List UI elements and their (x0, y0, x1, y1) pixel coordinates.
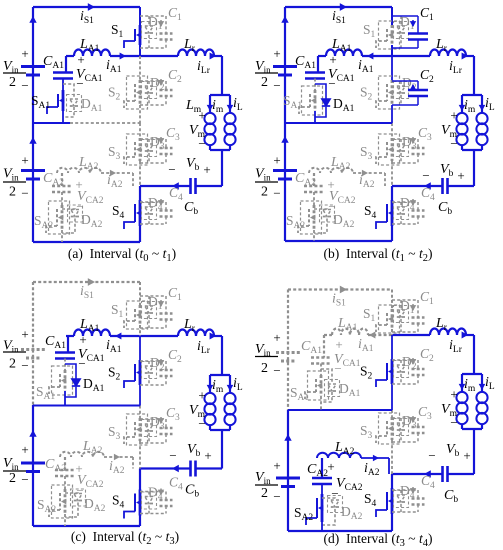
left rail upper wire (284, 7, 286, 123)
svg-text:DA1: DA1 (83, 376, 105, 394)
svg-text:−: − (273, 489, 280, 504)
switch SA2 (64, 476, 66, 489)
inductor Lm branch (209, 95, 211, 112)
svg-text:S2: S2 (108, 365, 121, 383)
diode D (400, 81, 402, 86)
inductor Lr (178, 329, 214, 336)
capacitor CA1 (317, 56, 319, 73)
node tank bottom (210, 429, 230, 431)
svg-text:+: + (273, 46, 280, 61)
svg-text:C4: C4 (169, 475, 183, 493)
svg-text:Vb: Vb (440, 162, 454, 179)
svg-text:+: + (21, 153, 28, 168)
svg-text:+: + (21, 46, 28, 61)
diode D (148, 361, 150, 366)
svg-text:2: 2 (9, 471, 16, 486)
capacitor C (140, 80, 166, 82)
wire iA2 segment (101, 172, 133, 174)
source Vin/2 bottom (276, 477, 300, 480)
svg-text:iLr: iLr (197, 59, 211, 76)
load branch iL (481, 95, 483, 112)
capacitor CA1 (67, 336, 69, 353)
diode D (148, 492, 150, 497)
svg-text:iLr: iLr (449, 338, 463, 355)
svg-text:−: − (78, 356, 85, 371)
switch S (391, 25, 394, 45)
switch cell S3 (391, 410, 393, 417)
capacitor C (392, 489, 418, 491)
svg-text:S3: S3 (360, 144, 373, 162)
svg-text:+: + (79, 332, 86, 347)
svg-text:+: + (450, 108, 457, 123)
svg-text:im: im (212, 378, 224, 395)
svg-text:Vin: Vin (255, 470, 271, 486)
bottom rail wire (285, 240, 392, 242)
diode D (148, 16, 150, 26)
top rail wire (33, 6, 140, 8)
bottom rail wire (33, 241, 140, 243)
switch cell S1 (391, 290, 393, 310)
source Vin/2 top (273, 65, 297, 68)
svg-text:−: − (198, 416, 205, 431)
svg-text:S3: S3 (108, 144, 121, 162)
svg-text:C1: C1 (420, 5, 434, 23)
svg-text:C4: C4 (421, 185, 435, 203)
svg-text:S4: S4 (364, 491, 377, 509)
svg-text:LA1: LA1 (337, 316, 358, 333)
capacitor C (392, 299, 418, 301)
svg-text:Vb: Vb (186, 156, 200, 173)
svg-text:DA1: DA1 (333, 96, 355, 114)
svg-text:S3: S3 (360, 423, 373, 441)
switch cell S2 (391, 56, 393, 80)
capacitor C (140, 418, 166, 420)
svg-text:Vb: Vb (187, 442, 201, 459)
svg-text:CA1: CA1 (301, 339, 322, 356)
switch cell S2 (139, 336, 141, 360)
svg-text:(b) Interval (t1 ~ t2): (b) Interval (t1 ~ t2) (324, 246, 433, 264)
switch cell S4 (391, 474, 393, 488)
svg-text:−: − (334, 361, 341, 376)
load branch iL (229, 95, 231, 112)
wire SA1 source (320, 396, 322, 410)
left rail upper wire (32, 282, 34, 405)
wire Lr segment (392, 55, 430, 57)
bottom rail wire (288, 530, 392, 532)
diode D (400, 360, 402, 365)
svg-text:SA2: SA2 (294, 505, 313, 523)
right rail wire (221, 56, 223, 95)
svg-text:Vin: Vin (255, 167, 271, 183)
svg-text:S2: S2 (360, 85, 373, 103)
switch S (391, 309, 394, 329)
svg-text:+: + (204, 448, 211, 463)
bottom rail wire (33, 525, 140, 527)
diode DA1 (65, 364, 76, 379)
svg-text:iLr: iLr (197, 339, 211, 356)
svg-text:−: − (422, 168, 429, 183)
source Vin/2 top (276, 351, 300, 354)
diode D (148, 202, 150, 207)
capacitor C (140, 360, 166, 362)
wire SA2 source (313, 230, 315, 241)
svg-text:D3: D3 (402, 134, 417, 152)
svg-text:Lr: Lr (183, 317, 196, 334)
diode DA2 (322, 498, 335, 500)
svg-text:SA1: SA1 (290, 385, 309, 403)
wire LA1 branch (66, 335, 74, 337)
svg-text:iA1: iA1 (358, 58, 374, 75)
diode DA1 (63, 84, 74, 99)
left rail lower wire (32, 405, 34, 526)
svg-text:2: 2 (261, 486, 268, 501)
capacitor C (140, 201, 166, 203)
svg-text:C3: C3 (166, 405, 180, 423)
switch S (391, 138, 394, 161)
inductor Lr (178, 49, 214, 56)
switch S (391, 417, 394, 440)
svg-text:iA2: iA2 (109, 459, 125, 476)
node tank top (462, 94, 482, 96)
svg-text:S4: S4 (364, 203, 377, 221)
svg-text:2: 2 (9, 357, 16, 372)
capacitor C (140, 138, 166, 140)
top rail wire (285, 6, 392, 8)
svg-text:im: im (212, 98, 224, 115)
source Vin/2 top (21, 65, 45, 68)
wire LA1 branch (324, 334, 332, 336)
svg-text:+: + (457, 168, 464, 183)
svg-text:DA1: DA1 (81, 96, 103, 114)
svg-text:(d) Interval (t3 ~ t4): (d) Interval (t3 ~ t4) (324, 531, 433, 549)
capacitor CA2 (313, 173, 315, 186)
svg-text:CA1: CA1 (295, 54, 316, 71)
switch cell S3 (391, 123, 393, 138)
capacitor Cb (196, 467, 222, 469)
svg-text:CA1: CA1 (45, 334, 66, 351)
svg-text:iS1: iS1 (80, 284, 94, 301)
diode D (400, 16, 402, 26)
switch cell S3 (139, 406, 141, 419)
svg-text:S1: S1 (111, 22, 124, 40)
switch SA1 (64, 359, 66, 371)
wire SA2 source (321, 522, 323, 531)
node tank bottom (462, 428, 482, 430)
switch S (391, 488, 394, 514)
svg-text:2: 2 (261, 361, 268, 376)
svg-text:D3: D3 (150, 134, 165, 152)
svg-text:C2: C2 (168, 347, 182, 365)
diode D (148, 81, 150, 86)
svg-text:iS1: iS1 (332, 292, 346, 309)
svg-text:iA2: iA2 (359, 173, 375, 190)
switch SA1 (320, 364, 322, 376)
svg-text:CA2: CA2 (45, 457, 66, 474)
svg-text:iA2: iA2 (364, 461, 380, 478)
svg-text:−: − (450, 136, 457, 151)
svg-text:C2: C2 (420, 67, 434, 85)
svg-text:S4: S4 (112, 493, 125, 511)
svg-text:SA2: SA2 (34, 213, 53, 231)
midpoint wire (33, 122, 70, 124)
switch S (391, 80, 394, 105)
switch S (139, 25, 142, 45)
wire SA2 source (61, 230, 63, 242)
node tank bottom (462, 149, 482, 151)
svg-text:LA2: LA2 (334, 440, 355, 457)
switch SA2 (313, 192, 315, 205)
wire Lr segment (140, 55, 178, 57)
svg-text:−: − (328, 76, 335, 91)
node tank bottom (210, 149, 230, 151)
switch cell S4 (391, 186, 393, 200)
svg-text:iA1: iA1 (106, 338, 122, 355)
capacitor C (392, 359, 418, 361)
svg-text:Lr: Lr (435, 316, 448, 333)
inductor LA1 (326, 49, 362, 56)
svg-text:−: − (168, 162, 175, 177)
switch S (139, 418, 142, 441)
svg-text:CA2: CA2 (307, 462, 328, 479)
wire iA2 segment (353, 172, 385, 174)
svg-text:2: 2 (261, 185, 268, 200)
svg-text:−: − (21, 186, 28, 201)
svg-text:Vin: Vin (3, 167, 19, 183)
svg-text:−: − (21, 78, 28, 93)
capacitor C (392, 138, 418, 140)
switch SA2 (61, 192, 63, 205)
midpoint wire (285, 122, 392, 124)
capacitor CA2 (61, 173, 63, 186)
wire SA1 source (62, 111, 64, 123)
source Vin/2 bottom (21, 462, 45, 465)
svg-text:+: + (21, 327, 28, 342)
switch SA1 (62, 79, 64, 91)
svg-text:iS1: iS1 (80, 9, 94, 26)
wire iA1 segment (368, 334, 392, 336)
svg-text:+: + (273, 330, 280, 345)
svg-text:−: − (450, 415, 457, 430)
svg-text:Vin: Vin (3, 456, 19, 472)
svg-text:DA2: DA2 (333, 212, 355, 230)
wire LA1 branch (318, 55, 326, 57)
left rail upper wire (287, 290, 289, 411)
node tank top (210, 94, 230, 96)
svg-text:+: + (329, 52, 336, 67)
node tank top (462, 373, 482, 375)
svg-text:+: + (198, 388, 205, 403)
inductor LA1 (332, 328, 368, 335)
svg-text:+: + (327, 459, 334, 474)
svg-text:D2: D2 (402, 354, 417, 372)
inductor LA2 (57, 168, 101, 173)
switch cell S2 (391, 335, 393, 359)
left rail lower wire (284, 123, 286, 241)
svg-text:Cb: Cb (185, 483, 199, 500)
svg-text:(a) Interval (t0 ~ t1): (a) Interval (t0 ~ t1) (68, 246, 176, 264)
diode D (400, 202, 402, 207)
svg-text:C3: C3 (418, 404, 432, 422)
svg-text:C1: C1 (420, 289, 434, 307)
svg-text:−: − (273, 78, 280, 93)
capacitor CA1 (323, 335, 325, 358)
wire SA1 source (314, 111, 316, 123)
capacitor Cb (196, 185, 222, 187)
svg-text:iA1: iA1 (106, 58, 122, 75)
switch cell S3 (139, 123, 141, 138)
svg-text:LA2: LA2 (82, 439, 103, 456)
switch S (139, 80, 142, 105)
diode D (148, 139, 150, 144)
svg-text:iL: iL (485, 375, 495, 392)
svg-text:VCA2: VCA2 (336, 476, 363, 493)
switch cell S4 (139, 469, 141, 490)
svg-text:−: − (76, 76, 83, 91)
capacitor Cb (448, 185, 474, 187)
svg-text:−: − (198, 136, 205, 151)
capacitor CA1 (65, 56, 67, 73)
svg-text:SA2: SA2 (286, 213, 305, 231)
svg-text:2: 2 (9, 185, 16, 200)
svg-text:−: − (169, 448, 176, 463)
svg-text:iLr: iLr (449, 59, 463, 76)
svg-text:iA1: iA1 (358, 337, 374, 354)
right rail wire (221, 336, 223, 375)
load branch iL (481, 374, 483, 391)
source Vin/2 bottom (273, 169, 297, 172)
svg-text:iL: iL (485, 96, 495, 113)
source Vin/2 bottom (21, 169, 45, 172)
svg-text:+: + (77, 52, 84, 67)
svg-text:Cb: Cb (438, 200, 452, 217)
inductor LA1 (74, 49, 110, 56)
switch SA1 (314, 79, 316, 91)
diode DA2 (65, 492, 78, 495)
svg-text:D2: D2 (150, 355, 165, 373)
diode D (148, 296, 150, 306)
svg-text:CA1: CA1 (43, 54, 64, 71)
inductor Lm branch (209, 375, 211, 392)
svg-text:+: + (21, 442, 28, 457)
svg-text:im: im (464, 377, 476, 394)
svg-text:C4: C4 (169, 185, 183, 203)
diode D (400, 139, 402, 144)
svg-text:Lr: Lr (183, 37, 196, 54)
wire iA1 segment (362, 55, 392, 57)
svg-text:C2: C2 (420, 346, 434, 364)
inductor LA2 (317, 453, 361, 458)
switch cell S1 (139, 282, 141, 305)
inductor Lm branch (461, 95, 463, 112)
svg-text:+: + (203, 162, 210, 177)
wire LA1 branch (66, 55, 74, 57)
switch S (139, 138, 142, 161)
node tank top (210, 374, 230, 376)
svg-text:+: + (273, 153, 280, 168)
svg-text:+: + (198, 108, 205, 123)
svg-text:Cb: Cb (184, 200, 198, 217)
wire iA2 segment (361, 457, 389, 459)
diode DA2 (314, 208, 327, 211)
source Vin/2 top (21, 348, 45, 351)
svg-text:C1: C1 (168, 5, 182, 23)
svg-text:LA2: LA2 (78, 155, 99, 172)
switch cell S1 (139, 7, 141, 25)
inductor LA1 (74, 329, 110, 336)
svg-text:S1: S1 (363, 306, 376, 324)
diode D (148, 419, 150, 424)
left rail lower wire (32, 123, 34, 242)
svg-text:DA2: DA2 (81, 212, 103, 230)
svg-text:−: − (273, 186, 280, 201)
switch S (139, 305, 142, 325)
right rail wire (473, 335, 475, 374)
svg-text:D3: D3 (150, 414, 165, 432)
svg-text:−: − (21, 358, 28, 373)
svg-text:+: + (463, 448, 470, 463)
svg-text:iA2: iA2 (107, 173, 123, 190)
switch S (139, 360, 142, 385)
svg-text:C3: C3 (166, 125, 180, 143)
top rail wire (33, 281, 140, 283)
wire iA1 segment (110, 335, 140, 337)
svg-text:+: + (450, 387, 457, 402)
svg-text:C1: C1 (168, 285, 182, 303)
svg-text:C3: C3 (418, 125, 432, 143)
svg-text:DA2: DA2 (84, 496, 106, 514)
capacitor C (392, 80, 418, 82)
wire iA1 segment (110, 55, 140, 57)
inductor Lr (430, 328, 466, 335)
capacitor C (140, 295, 166, 297)
wire SA1 source (64, 391, 66, 406)
left rail lower wire (287, 410, 289, 531)
svg-text:2: 2 (9, 75, 16, 90)
svg-text:S2: S2 (108, 85, 121, 103)
svg-text:−: − (21, 472, 28, 487)
svg-text:Lr: Lr (435, 37, 448, 54)
inductor Lm branch (461, 374, 463, 391)
switch S (139, 200, 142, 226)
switch cell S2 (139, 56, 141, 80)
midpoint wire (288, 409, 392, 411)
svg-text:C2: C2 (168, 67, 182, 85)
svg-text:SA2: SA2 (37, 497, 56, 515)
svg-text:C4: C4 (421, 473, 435, 491)
svg-text:Vin: Vin (255, 342, 271, 358)
diode D (400, 490, 402, 495)
svg-text:iS1: iS1 (332, 9, 346, 26)
svg-text:(c) Interval (t2 ~ t3): (c) Interval (t2 ~ t3) (71, 529, 179, 547)
capacitor C (140, 15, 166, 17)
midpoint wire (33, 405, 140, 407)
wire Lr segment (392, 334, 430, 336)
svg-text:+: + (273, 458, 280, 473)
svg-text:S1: S1 (111, 302, 124, 320)
inductor LA2 (60, 452, 104, 457)
svg-text:2: 2 (261, 75, 268, 90)
capacitor C (392, 201, 418, 203)
svg-text:D3: D3 (402, 413, 417, 431)
capacitor C (392, 417, 418, 419)
svg-text:−: − (273, 363, 280, 378)
top rail wire (288, 288, 392, 290)
diode D (400, 300, 402, 310)
switch cell S1 (391, 7, 393, 25)
right rail wire (473, 56, 475, 95)
svg-text:S4: S4 (112, 203, 125, 221)
capacitor C (140, 491, 166, 493)
